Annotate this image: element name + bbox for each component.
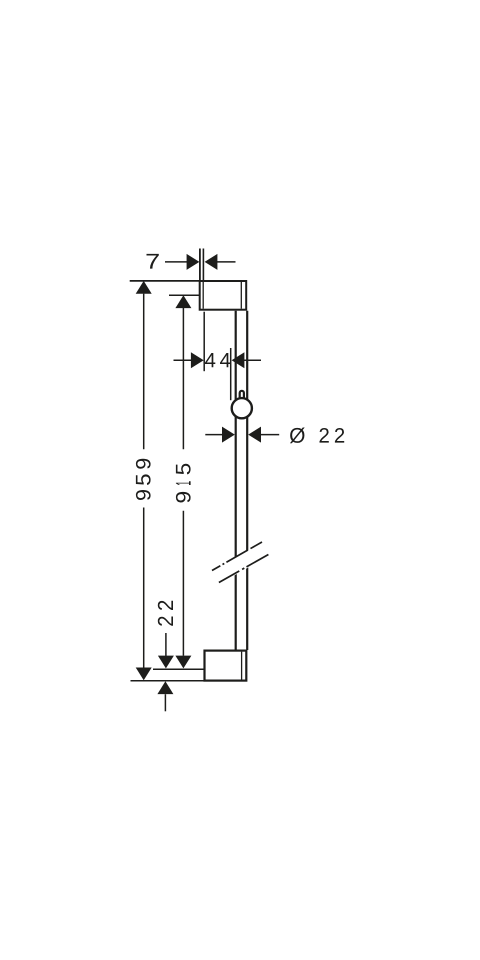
dim 44 right line bbox=[244, 359, 261, 361]
dim diameter 22 first digit bbox=[319, 428, 328, 443]
dim 22 upper line segment bbox=[165, 633, 167, 656]
dim 44 left line bbox=[174, 359, 193, 361]
break symbol white gap bbox=[211, 543, 270, 584]
dim 7 right line bbox=[217, 261, 236, 263]
bar right edge line bbox=[246, 311, 248, 650]
dim diameter 22 right-pointing arrow bbox=[222, 427, 235, 443]
dim 959 label digit 9 (bottom) bbox=[136, 490, 151, 500]
dim 22 label digit 2 (top) bbox=[158, 601, 173, 610]
slider tab knob bbox=[240, 391, 244, 405]
dim 915 label digit 9 (bottom) bbox=[176, 492, 191, 503]
break symbol upper dash-dot diagonal bbox=[212, 542, 262, 571]
top bracket wall plate inner line bbox=[202, 282, 204, 309]
dim diameter 22 left line bbox=[205, 434, 223, 436]
dim 959 label digit 5 bbox=[136, 474, 151, 485]
break symbol lower dash-dot diagonal bbox=[219, 554, 269, 583]
dim 915 line lower segment bbox=[182, 511, 184, 656]
dim 959 line lower segment bbox=[143, 508, 145, 668]
dim 7 label glyph bbox=[147, 254, 159, 269]
dim diameter symbol bbox=[290, 427, 305, 443]
bottom bracket outer body bbox=[205, 651, 247, 681]
dim 7 left-pointing arrow bbox=[205, 254, 218, 270]
dim 22 lower tail line bbox=[164, 694, 166, 711]
top bracket inner right line bbox=[240, 282, 242, 309]
dim 959 top up arrow bbox=[136, 281, 152, 294]
dim diameter 22 left-pointing arrow bbox=[248, 427, 261, 443]
dim 7 left line bbox=[165, 261, 188, 263]
slider circle bbox=[232, 398, 252, 418]
dim 44 right-pointing arrow bbox=[191, 352, 204, 368]
wall plate extension line right (7 dim) bbox=[202, 249, 204, 282]
dim 915 line upper segment bbox=[182, 308, 184, 449]
dim 959 line upper segment bbox=[143, 294, 145, 450]
extension line bar bottom (915/22 reference) bbox=[153, 668, 204, 670]
extension line 915 top reference bbox=[169, 294, 200, 296]
wall plate extension line left (7 dim) bbox=[199, 249, 201, 282]
dim 44 slider-edge extension line bbox=[230, 348, 232, 400]
bottom bracket inner right line bbox=[241, 652, 243, 680]
dim 915 top up arrow bbox=[175, 295, 191, 308]
dim 44 label first digit bbox=[205, 353, 215, 367]
dim 915 label digit 1 bbox=[176, 481, 191, 485]
dim 22 down arrow bbox=[158, 656, 174, 669]
dim 44 wall extension line bbox=[203, 312, 205, 372]
extension line bottom (959 bottom reference) bbox=[131, 680, 205, 682]
bar left edge line bbox=[235, 311, 237, 650]
dim 44 left-pointing arrow bbox=[232, 352, 245, 368]
dim diameter 22 second digit bbox=[335, 428, 344, 443]
dim 7 right-pointing arrow bbox=[187, 254, 200, 270]
dim 915 bottom down arrow bbox=[175, 656, 191, 669]
dim 915 label digit 5 (top) bbox=[176, 464, 191, 475]
top bracket outer body bbox=[200, 281, 247, 310]
dim 22 lower up arrow bbox=[157, 681, 173, 694]
dim 22 label digit 2 (bottom) bbox=[158, 616, 173, 625]
dim 44 label second digit bbox=[220, 353, 230, 367]
extension line top (959 top reference) bbox=[130, 280, 200, 282]
dim diameter 22 right line bbox=[261, 434, 280, 436]
dim 959 label digit 9 (top) bbox=[136, 459, 151, 469]
dim 959 bottom down arrow bbox=[136, 668, 152, 681]
